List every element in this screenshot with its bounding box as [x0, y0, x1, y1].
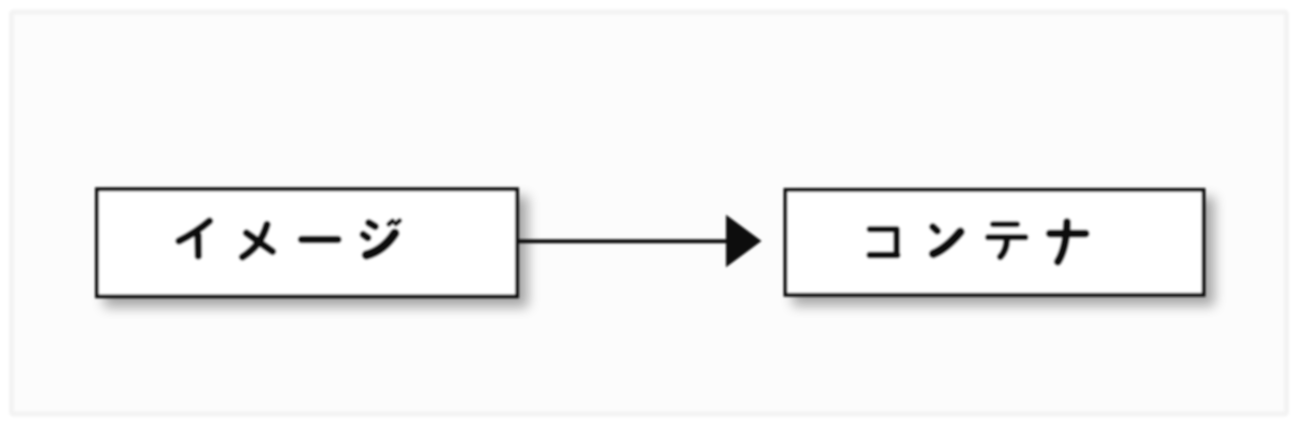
shadow of box "コンテナ" — [793, 197, 1215, 306]
glyph メ — [243, 225, 268, 258]
box イメージ — [97, 189, 517, 296]
glyph ナ — [1050, 230, 1086, 238]
wire: arrow shaft from イメージ to コンテナ — [517, 239, 727, 243]
text コンテナ — [870, 222, 1086, 262]
glyph ジ — [369, 223, 375, 227]
glyph ー — [302, 236, 339, 244]
arrowhead — [726, 215, 762, 267]
glyph イ — [179, 221, 210, 241]
glyph テ — [993, 221, 1017, 227]
box コンテナ — [786, 190, 1204, 295]
shadow of box "イメージ" — [104, 196, 528, 307]
text イメージ — [179, 221, 400, 257]
glyph コ — [870, 226, 896, 233]
glyph ン — [933, 227, 938, 231]
